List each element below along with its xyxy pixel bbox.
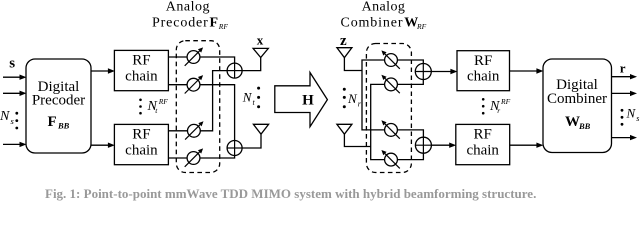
phase shifter PS2 (tx) — [185, 75, 203, 93]
svg-text:RF: RF — [132, 53, 150, 69]
wire node B down to PS-d — [371, 147, 385, 160]
wire output arrow 3 from digital combiner — [612, 135, 638, 140]
svg-text:s: s — [636, 114, 639, 123]
wire PS1 to summer1 top — [200, 57, 235, 63]
svg-text:r: r — [620, 61, 626, 76]
svg-text:RF: RF — [132, 127, 150, 143]
label digital combiner text — [547, 77, 607, 131]
channel H block arrow — [275, 73, 328, 127]
node N_r dots between rx antennas — [343, 88, 346, 108]
wire node A down to PS-c — [362, 71, 385, 130]
wire PS3 up to summer1 left — [200, 71, 227, 131]
svg-text:F: F — [210, 15, 219, 30]
node N_t^RF dots — [139, 99, 142, 115]
block RF chain 1 (tx) — [114, 50, 168, 90]
wire output arrow 2 from digital combiner — [612, 91, 638, 96]
wire PS-c to summer4 top — [397, 130, 423, 137]
label analog combiner title — [341, 0, 427, 31]
phase shifter PS3 (tx) — [185, 121, 203, 139]
label RF chain 1 text — [125, 53, 158, 85]
label RF chain 3 text — [467, 53, 500, 85]
wire arrow RF chain3 to digital combiner — [510, 68, 544, 73]
svg-text:N: N — [0, 109, 10, 124]
wire PS-b to summer3 bottom — [397, 79, 423, 84]
wire output arrow 1 from digital combiner — [612, 74, 638, 79]
svg-text:RF: RF — [158, 97, 169, 106]
block RF chain 2 (tx) — [114, 124, 168, 164]
node N_t dots between antennas — [257, 87, 260, 109]
svg-text:Precoder: Precoder — [32, 93, 85, 109]
svg-text:BB: BB — [57, 121, 70, 131]
node N_r^RF dots — [482, 98, 485, 114]
phase shifter PS-a (rx) — [381, 50, 399, 68]
wire input arrow 3 into digital precoder — [3, 142, 27, 147]
wire node A up to PS-a — [362, 60, 385, 71]
block RF chain 3 (rx) — [457, 51, 510, 91]
svg-text:chain: chain — [125, 142, 158, 158]
node N_s dots right — [621, 109, 624, 126]
svg-text:Combiner: Combiner — [547, 91, 607, 107]
svg-text:Precoder: Precoder — [152, 15, 208, 30]
svg-text:RF: RF — [474, 127, 492, 143]
label N_s right — [626, 106, 640, 123]
svg-text:chain: chain — [125, 68, 158, 84]
svg-text:W: W — [565, 114, 580, 130]
label N_r^RF — [489, 97, 511, 115]
wire input arrow 1 into digital precoder — [3, 75, 27, 80]
svg-text:z: z — [340, 33, 347, 49]
wire arrow summer4 to RF chain 4 — [431, 143, 456, 148]
phase shifter PS4 (tx) — [185, 148, 203, 166]
block digital precoder F_BB — [26, 59, 91, 153]
label N_t antennas — [242, 90, 256, 107]
caption figure 1 (clipped at page bottom) — [45, 186, 536, 202]
phase shifter PS-b (rx) — [381, 75, 399, 93]
label RF chain 4 text — [466, 127, 499, 159]
wire RF chain1 to PS1 — [168, 56, 187, 58]
label RF chain 2 text — [125, 127, 158, 159]
wire input arrow 2 into digital precoder — [3, 91, 27, 96]
box analog combiner W_RF dashed — [366, 44, 411, 173]
label N_t^RF — [147, 97, 169, 115]
svg-text:s: s — [9, 56, 15, 72]
svg-text:chain: chain — [466, 142, 499, 158]
wire PS4 to summer2 bottom — [200, 155, 235, 158]
antenna rx 2 — [337, 124, 352, 134]
svg-text:H: H — [302, 92, 314, 108]
svg-text:F: F — [48, 114, 57, 130]
wire RF chain2 to PS3 — [168, 130, 187, 132]
label digital precoder text — [32, 79, 85, 131]
wire summer1 to antenna 1 (tx) — [242, 58, 261, 71]
svg-text:N: N — [626, 106, 637, 121]
svg-text:RF: RF — [474, 53, 492, 69]
wire arrow precoder to RF chain 2 — [91, 143, 115, 148]
wire RF chain1 to PS2 — [168, 84, 187, 86]
block RF chain 4 (rx) — [456, 124, 510, 164]
svg-text:N: N — [242, 90, 253, 105]
summer adder 3 (rx) — [415, 64, 431, 80]
label N_r antennas — [347, 91, 362, 108]
wire summer2 to antenna 2 (tx) — [242, 134, 261, 148]
svg-text:RF: RF — [416, 22, 427, 31]
svg-text:BB: BB — [578, 121, 591, 131]
wire node B up to PS-b — [371, 84, 385, 146]
svg-text:Combiner: Combiner — [341, 15, 403, 30]
svg-text:N: N — [347, 91, 358, 106]
summer adder 4 (rx) — [415, 137, 431, 153]
wire PS2 down to summer2 top — [200, 85, 235, 141]
svg-text:RF: RF — [500, 97, 511, 106]
summer adder 2 (tx) — [227, 141, 242, 156]
svg-text:RF: RF — [218, 22, 229, 31]
svg-text:x: x — [257, 33, 264, 48]
phase shifter PS-c (rx) — [381, 120, 399, 138]
antenna rx 1 — [337, 48, 352, 58]
wire arrow summer3 to RF chain 3 — [431, 69, 457, 74]
node N_s vertical dots left — [15, 112, 18, 130]
summer adder 1 (tx) — [227, 63, 242, 78]
block digital combiner W_BB — [543, 59, 612, 153]
svg-text:Analog: Analog — [166, 0, 210, 15]
wire arrow RF chain4 to digital combiner — [510, 143, 544, 148]
wire arrow precoder to RF chain 1 — [91, 68, 115, 73]
phase shifter PS1 (tx) — [185, 47, 203, 65]
node N_s label left — [0, 109, 15, 126]
svg-text:r: r — [497, 106, 500, 115]
wire PS-d to summer4 bottom — [397, 153, 423, 160]
antenna tx 1 — [253, 48, 268, 57]
wire antenna rx1 stem to node — [344, 58, 362, 71]
box analog precoder F_RF dashed — [176, 41, 219, 173]
phase shifter PS-d (rx) — [381, 150, 399, 168]
wire RF chain2 to PS4 — [168, 157, 187, 159]
svg-text:Analog: Analog — [362, 0, 405, 15]
wire PS-a to summer3 top — [397, 60, 423, 64]
wire antenna rx2 stem to node — [344, 134, 370, 146]
antenna tx 2 — [253, 124, 268, 134]
svg-text:chain: chain — [467, 69, 500, 85]
label analog precoder title — [152, 0, 228, 31]
